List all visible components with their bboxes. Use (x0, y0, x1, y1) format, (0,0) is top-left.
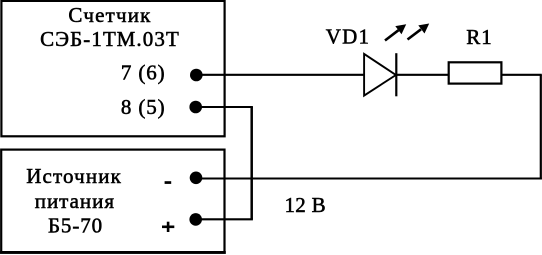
svg-text:питания: питания (35, 189, 115, 213)
wire: pin 8(5) horizontal (196, 106, 253, 108)
svg-text:7 (6): 7 (6) (121, 61, 166, 85)
svg-text:СЭБ-1ТМ.03Т: СЭБ-1ТМ.03Т (40, 27, 180, 51)
svg-text:Б5-70: Б5-70 (48, 213, 103, 237)
svg-text:12 В: 12 В (285, 193, 326, 217)
LED VD1: diode triangle (364, 54, 396, 96)
box: counter (Счетчик СЭБ-1ТМ.03Т) (1, 1, 224, 136)
wire: pin 7(6) to LED anode (196, 74, 365, 76)
wire: LED cathode to resistor (396, 74, 450, 76)
LED VD1: light arrow 1 (385, 24, 406, 40)
svg-text:Счетчик: Счетчик (68, 3, 151, 27)
wire: plus terminal horizontal (196, 218, 253, 220)
resistor R1 (449, 62, 502, 83)
svg-text:8 (5): 8 (5) (121, 95, 166, 119)
wire: minus terminal to right vertical (196, 177, 542, 179)
box: power supply (Источник питания Б5-70) (1, 150, 224, 253)
terminal node 8(5) (189, 101, 202, 114)
plus terminal label (162, 222, 174, 232)
box: power supply bottom edge (thicker) (0, 251, 226, 254)
svg-text:VD1: VD1 (326, 25, 370, 49)
wire: middle vertical (8(5) to plus) (250, 107, 253, 219)
wire: right vertical drop (540, 75, 542, 180)
LED VD1: cathode bar (395, 53, 397, 96)
terminal node minus (190, 172, 203, 185)
terminal node plus (189, 213, 202, 226)
svg-text:Источник: Источник (26, 164, 122, 188)
wire: resistor to right corner (501, 74, 542, 76)
svg-text:R1: R1 (466, 25, 493, 49)
minus terminal label (165, 181, 172, 184)
LED VD1: light arrow 2 (408, 24, 430, 40)
terminal node 7(6) (190, 69, 203, 82)
